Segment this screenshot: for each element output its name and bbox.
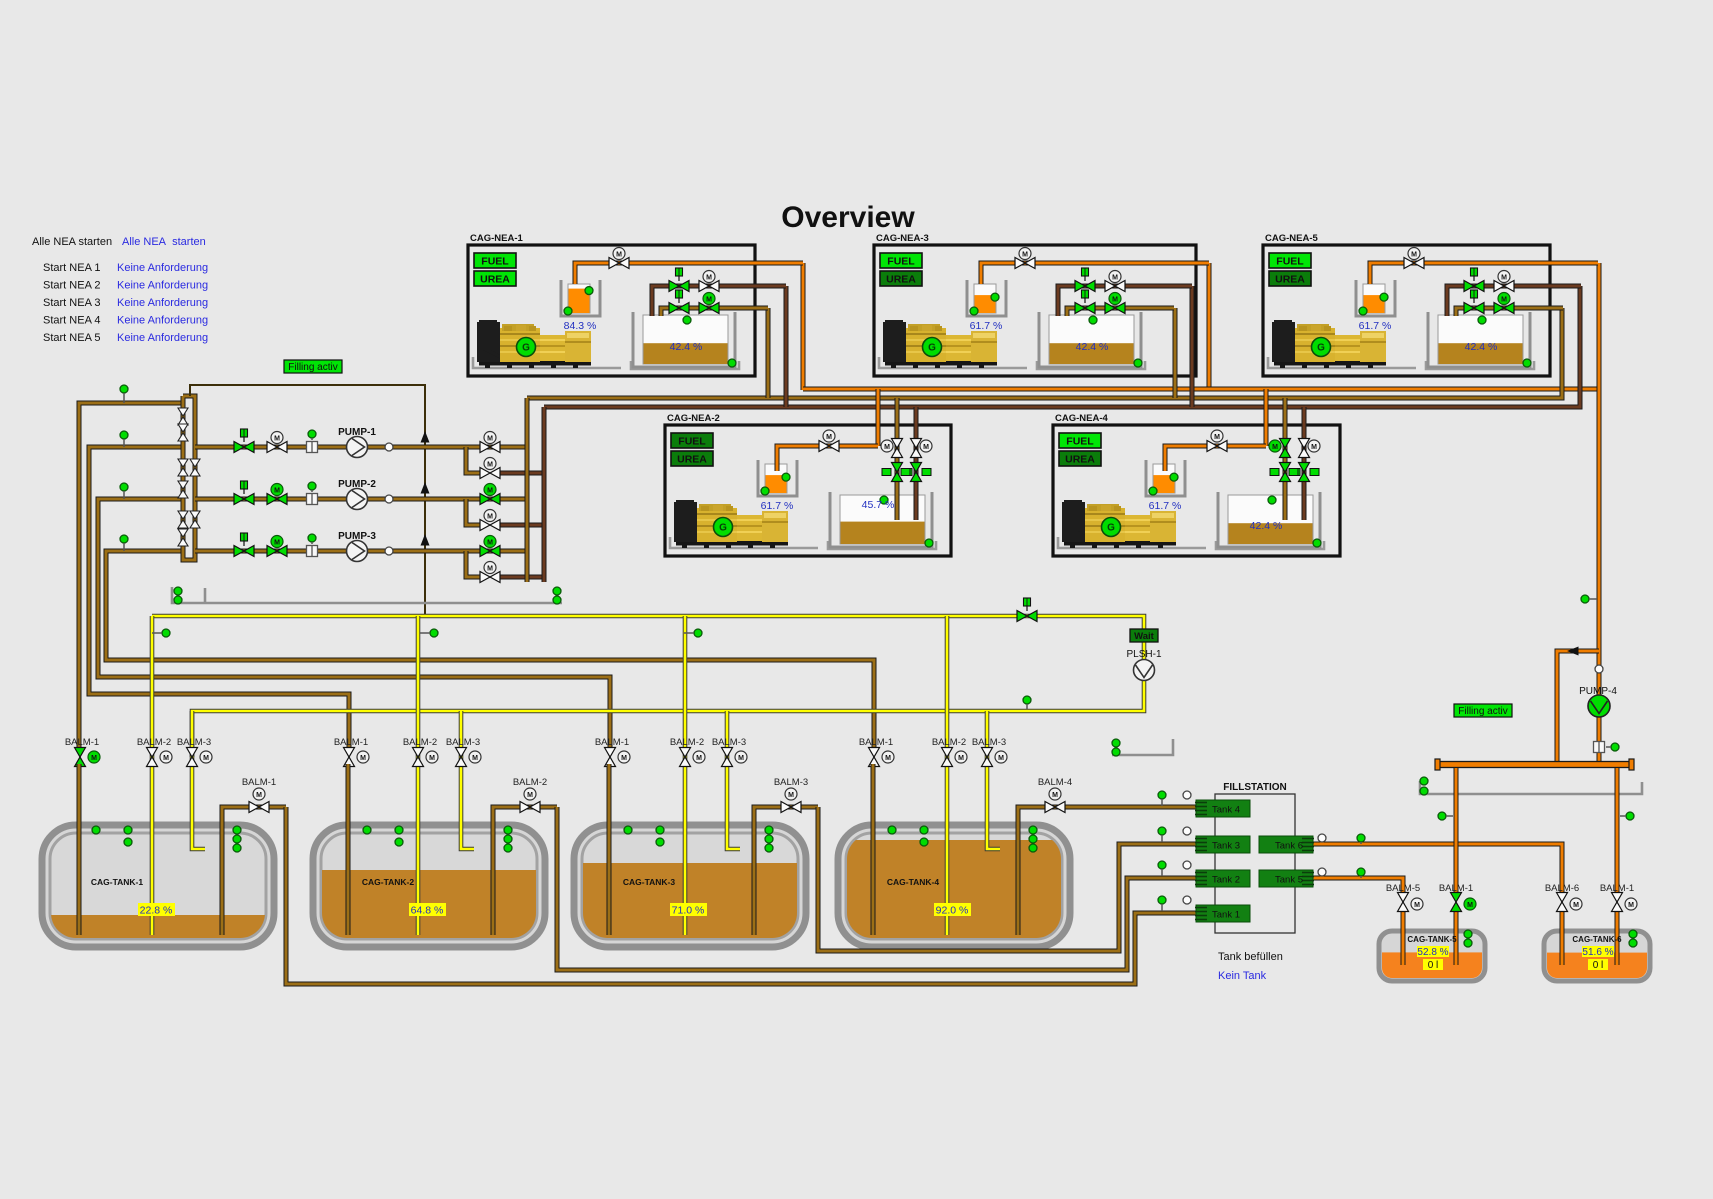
svg-text:CAG-TANK-1: CAG-TANK-1 [91, 877, 144, 887]
svg-text:42.4 %: 42.4 % [670, 341, 703, 353]
valve BALM-1 [869, 748, 880, 767]
valve BALM-3 [187, 748, 198, 767]
fuel day tank CAG-NEA-4 [1218, 492, 1320, 547]
svg-text:64.8 %: 64.8 % [411, 905, 444, 917]
button Tank 6 [1259, 836, 1314, 853]
M circle PUMP-1 [271, 432, 283, 444]
urea level sensor bottom CAG-NEA-3 [970, 307, 978, 315]
fuel supply main [544, 286, 1580, 407]
M circle branch PUMP-3 [484, 562, 496, 574]
branch valve PUMP-2 [480, 520, 500, 531]
M circle BALM-3 [735, 751, 747, 763]
M circle outlet BALM-4 [1049, 788, 1061, 800]
floor bracket fill area [1420, 781, 1642, 794]
fuel hand valve lower CAG-NEA-1 [669, 303, 689, 314]
svg-text:61.7 %: 61.7 % [761, 500, 794, 512]
valve BALM-1 small tank [1451, 893, 1462, 912]
M circle upper valve CAG-NEA-1 [703, 271, 715, 283]
tank top indicator [395, 826, 403, 834]
outlet line BALM-2 [493, 807, 557, 935]
status UREA CAG-NEA-5 [1269, 271, 1311, 286]
fuel tank sensor CAG-NEA-2 [880, 496, 888, 504]
M circle BALM-3 [469, 751, 481, 763]
room indicator [174, 587, 182, 595]
room indicator [1112, 748, 1120, 756]
overflow valve [1017, 611, 1037, 622]
M circle outlet BALM-1 [253, 788, 265, 800]
svg-text:FUEL: FUEL [887, 256, 915, 268]
svg-text:92.0 %: 92.0 % [936, 905, 969, 917]
M circle upper valve CAG-NEA-3 [1109, 271, 1121, 283]
tank outlet indicator [1029, 844, 1037, 852]
overflow indicator [162, 629, 170, 637]
room indicator [553, 587, 561, 595]
fuel line column B CAG-NEA-2 [914, 427, 919, 520]
vent line tank3 BALM-3 [727, 711, 740, 849]
M circle BALM-2 [955, 751, 967, 763]
pump PUMP-4 [1588, 695, 1610, 717]
vent line tank1 BALM-3 [192, 711, 205, 849]
M circle urea valve CAG-NEA-4 [1211, 430, 1223, 442]
valve BALM-2 [942, 748, 953, 767]
fuel tank sensor low CAG-NEA-4 [1313, 539, 1321, 547]
svg-text:0 l: 0 l [1593, 960, 1604, 971]
storage tank CAG-TANK-5 [1379, 931, 1485, 981]
filter PUMP-3 [307, 546, 318, 557]
tank top indicator [888, 826, 896, 834]
svg-text:PUMP-3: PUMP-3 [338, 531, 376, 542]
svg-text:BALM-2: BALM-2 [932, 737, 966, 748]
fuel hand valve upper CAG-NEA-3 [1075, 281, 1095, 292]
urea level sensor bottom CAG-NEA-4 [1149, 487, 1157, 495]
suction line tank1 [79, 403, 183, 750]
frame CAG-NEA-1 [468, 245, 755, 376]
M circle BALM-6 small tank [1570, 898, 1582, 910]
fill pipe tank6 right [1615, 908, 1620, 965]
branch valve PUMP-3 [480, 572, 500, 583]
transfer line BALM-4 to fillstation [1082, 805, 1196, 810]
skid floor fuel tank CAG-NEA-2 [828, 541, 936, 549]
fill drop tank6 BALM-1 [1615, 768, 1620, 895]
status Filling activ 1 [284, 360, 342, 373]
urea main header [803, 387, 1599, 392]
svg-text:CAG-NEA-1: CAG-NEA-1 [470, 233, 523, 244]
level display CAG-TANK-2 [409, 903, 446, 917]
floor bracket pump room [172, 587, 562, 603]
urea supply line CAG-NEA-2 [777, 446, 878, 471]
valve BALM-6 small tank [1557, 893, 1568, 912]
room indicator [1112, 739, 1120, 747]
fill indicator Tank 5 [1357, 868, 1365, 876]
svg-text:FUEL: FUEL [1066, 436, 1094, 448]
room indicator [174, 596, 182, 604]
hand valve column B CAG-NEA-4 [1289, 463, 1319, 482]
status UREA CAG-NEA-1 [474, 271, 516, 286]
tank top indicator [395, 838, 403, 846]
status FUEL CAG-NEA-2 [671, 433, 713, 448]
svg-text:FUEL: FUEL [1276, 256, 1304, 268]
pump discharge riser [525, 398, 530, 582]
svg-text:Alle NEA starten: Alle NEA starten [32, 236, 112, 248]
valve BALM-3 [982, 748, 993, 767]
svg-text:Keine Anforderung: Keine Anforderung [117, 262, 208, 274]
motor valve column B CAG-NEA-4 [1299, 439, 1310, 458]
svg-text:FILLSTATION: FILLSTATION [1223, 782, 1287, 793]
level display CAG-TANK-6 [1582, 946, 1614, 958]
urea day tank CAG-NEA-4 [1146, 460, 1185, 496]
skid floor fuel tank CAG-NEA-1 [631, 361, 739, 369]
line indicator Tank 1 [1158, 896, 1166, 904]
generator unit CAG-NEA-5 [1263, 233, 1550, 376]
hand lever [241, 429, 248, 442]
tank6 indicator [1629, 930, 1637, 938]
M circle PUMP-3 [271, 536, 283, 548]
hand valve column A CAG-NEA-2 [882, 463, 912, 482]
fuel line column A CAG-NEA-2 [895, 427, 900, 520]
fuel line column B CAG-NEA-4 [1302, 427, 1307, 520]
fuel return line CAG-NEA-5 [1456, 308, 1563, 316]
fuel hand valve lower CAG-NEA-3 [1075, 303, 1095, 314]
overflow drop tank4 BALM-2 [945, 616, 950, 935]
outlet valve BALM-4 [1045, 802, 1065, 813]
svg-text:UREA: UREA [480, 274, 510, 286]
diesel engine CAG-NEA-4 [1062, 500, 1176, 548]
fuel return drop NEA-3 [1173, 308, 1178, 398]
M circle column A CAG-NEA-2 [881, 440, 893, 452]
branch valve PUMP-1 [480, 468, 500, 479]
suction line tank2 [89, 447, 349, 750]
tank outlet indicator [504, 844, 512, 852]
flow arrow PUMP-4 [1567, 647, 1579, 656]
fill drop tank5 BALM-1 [1454, 768, 1459, 895]
svg-text:Start NEA 2: Start NEA 2 [43, 280, 100, 292]
urea drop NEA-4 [1264, 389, 1269, 446]
line sensor Tank 1 [1183, 896, 1191, 904]
fuel tank sensor CAG-NEA-1 [683, 316, 691, 324]
M circle BALM-1 [357, 751, 369, 763]
fuel motor valve lower CAG-NEA-5 [1494, 303, 1514, 314]
bypass branch PUMP-2 [466, 499, 480, 525]
M circle PUMP-2 [271, 484, 283, 496]
outlet valve BALM-1 [249, 802, 269, 813]
svg-text:61.7 %: 61.7 % [970, 320, 1003, 332]
fuel day tank CAG-NEA-2 [830, 492, 932, 547]
drop indicator [1438, 812, 1446, 820]
tank outlet indicator [233, 835, 241, 843]
line sensor Tank 3 [1183, 827, 1191, 835]
fuel return drop NEA-1 [766, 308, 771, 398]
fuel line column A CAG-NEA-4 [1283, 427, 1288, 520]
overflow drop tank1 BALM-2 [150, 616, 155, 935]
motor valve column A CAG-NEA-2 [892, 439, 903, 458]
suction line tank3 [98, 499, 610, 750]
valve BALM-1 small tank [1612, 893, 1623, 912]
bypass branch PUMP-1 [466, 447, 480, 473]
pump PLSH-1 [1134, 660, 1155, 681]
suction pipe in tank [77, 764, 82, 935]
M circle column B CAG-NEA-2 [920, 440, 932, 452]
button Tank 2 [1195, 870, 1250, 887]
pump bypass line [190, 385, 425, 616]
room indicator [1420, 787, 1428, 795]
urea valve CAG-NEA-4 [1207, 441, 1227, 452]
M circle BALM-2 [160, 751, 172, 763]
filter indicator PUMP-2 [308, 482, 316, 490]
flow arrow [421, 431, 430, 443]
hand valve column A CAG-NEA-4 [1270, 463, 1300, 482]
skid floor engine CAG-NEA-2 [670, 537, 818, 548]
fuel motor valve lower CAG-NEA-1 [699, 303, 719, 314]
svg-text:BALM-1: BALM-1 [242, 777, 276, 788]
skid floor engine CAG-NEA-3 [879, 357, 1027, 368]
svg-text:CAG-TANK-5: CAG-TANK-5 [1407, 935, 1457, 944]
urea level sensor bottom CAG-NEA-5 [1359, 307, 1367, 315]
svg-text:BALM-2: BALM-2 [670, 737, 704, 748]
tank outlet indicator [1029, 835, 1037, 843]
svg-text:UREA: UREA [886, 274, 916, 286]
check valves manifold left [178, 408, 188, 546]
skid floor engine CAG-NEA-5 [1268, 357, 1416, 368]
fuel tank sensor CAG-NEA-5 [1478, 316, 1486, 324]
fuel tank sensor low CAG-NEA-1 [728, 359, 736, 367]
check valves manifold right [190, 459, 200, 528]
M circle upper valve CAG-NEA-5 [1498, 271, 1510, 283]
fuel supply line CAG-NEA-1 [652, 286, 786, 316]
svg-text:Tank 2: Tank 2 [1212, 875, 1240, 886]
tank top indicator [624, 826, 632, 834]
vent line tank2 BALM-3 [461, 711, 474, 849]
status Filling activ 2 [1454, 704, 1512, 717]
button Tank 3 [1195, 836, 1250, 853]
filter indicator PUMP-1 [308, 430, 316, 438]
svg-text:PLSH-1: PLSH-1 [1126, 649, 1161, 660]
transfer line BALM-2 to fillstation [557, 807, 1196, 970]
motor valve column B CAG-NEA-2 [911, 439, 922, 458]
indicator tank4 line [120, 535, 128, 543]
fuel hand valve upper CAG-NEA-1 [669, 281, 689, 292]
tank outlet indicator [765, 826, 773, 834]
urea level sensor top CAG-NEA-5 [1380, 293, 1388, 301]
fill line Tank 5 [1313, 878, 1403, 895]
svg-text:Keine Anforderung: Keine Anforderung [117, 280, 208, 292]
svg-text:51.6 %: 51.6 % [1582, 947, 1613, 958]
hand lever [1082, 268, 1089, 281]
level display CAG-TANK-5 [1417, 946, 1449, 958]
svg-text:CAG-TANK-2: CAG-TANK-2 [362, 877, 415, 887]
svg-text:61.7 %: 61.7 % [1149, 500, 1182, 512]
svg-text:BALM-2: BALM-2 [137, 737, 171, 748]
svg-text:PUMP-1: PUMP-1 [338, 427, 376, 438]
svg-text:Wait: Wait [1134, 631, 1155, 642]
outlet valve BALM-2 [520, 802, 540, 813]
flow arrow [421, 534, 430, 546]
urea level sensor top CAG-NEA-4 [1170, 473, 1178, 481]
diesel engine CAG-NEA-1 [477, 320, 591, 368]
M circle outlet BALM-3 [785, 788, 797, 800]
hand lever [676, 268, 683, 281]
vent line tank4 BALM-3 [987, 711, 1000, 849]
svg-text:Tank 4: Tank 4 [1212, 805, 1240, 816]
M circle BALM-1 small tank [1625, 898, 1637, 910]
urea valve CAG-NEA-3 [1015, 258, 1035, 269]
pressure sensor PUMP-2 [385, 495, 393, 503]
indicator tank3 line [120, 483, 128, 491]
svg-text:Start NEA 3: Start NEA 3 [43, 297, 100, 309]
overflow drop tank3 BALM-2 [683, 616, 688, 935]
tank top indicator [920, 838, 928, 846]
pump PUMP-2 [347, 489, 368, 510]
fuel day tank CAG-NEA-5 [1428, 312, 1530, 367]
svg-text:FUEL: FUEL [678, 436, 706, 448]
svg-text:52.8 %: 52.8 % [1417, 947, 1448, 958]
overflow main loop [152, 616, 1144, 757]
pump suction manifold [183, 396, 195, 560]
urea trunk right [1597, 263, 1602, 762]
transfer line BALM-3 to fillstation [818, 807, 1196, 951]
motor indicator urea valve CAG-NEA-5 [1408, 248, 1420, 260]
overflow indicator [430, 629, 438, 637]
status FUEL CAG-NEA-3 [880, 253, 922, 268]
trunk indicator [1581, 595, 1589, 603]
valve BALM-5 small tank [1398, 893, 1409, 912]
svg-text:45.7 %: 45.7 % [862, 499, 895, 511]
status UREA CAG-NEA-3 [880, 271, 922, 286]
fuel motor valve upper CAG-NEA-5 [1494, 281, 1514, 292]
discharge valve PUMP-1 [480, 442, 500, 453]
M circle BALM-1 [88, 751, 100, 763]
outlet line BALM-3 [754, 807, 818, 935]
diesel engine CAG-NEA-2 [674, 500, 788, 548]
urea drop NEA-2 [876, 389, 881, 446]
fuel feed column B NEA-4 [1302, 407, 1307, 440]
overflow indicator [694, 629, 702, 637]
fuel supply line CAG-NEA-3 [1058, 286, 1192, 316]
svg-text:Overview: Overview [781, 201, 915, 234]
generator unit CAG-NEA-3 [874, 233, 1196, 376]
status Wait PLSH-1 [1130, 629, 1158, 642]
button Tank 1 [1195, 905, 1250, 922]
outlet valve BALM-3 [781, 802, 801, 813]
svg-text:42.4 %: 42.4 % [1465, 341, 1498, 353]
diesel engine CAG-NEA-3 [883, 320, 997, 368]
tank top indicator [124, 838, 132, 846]
urea level sensor top CAG-NEA-3 [991, 293, 999, 301]
M circle BALM-3 [995, 751, 1007, 763]
svg-text:Keine Anforderung: Keine Anforderung [117, 297, 208, 309]
motor valve column A CAG-NEA-4 [1280, 439, 1291, 458]
svg-text:BALM-1: BALM-1 [859, 737, 893, 748]
urea day tank CAG-NEA-3 [967, 280, 1006, 316]
urea day tank CAG-NEA-1 [561, 280, 600, 316]
pump PUMP-1 [347, 437, 368, 458]
generator unit CAG-NEA-2 [665, 413, 951, 556]
discharge valve PUMP-3 [480, 546, 500, 557]
valve BALM-3 [456, 748, 467, 767]
M circle lower valve CAG-NEA-1 [703, 293, 715, 305]
fuel feed column A NEA-4 [1283, 398, 1288, 440]
button Tank 4 [1195, 800, 1250, 817]
fuel motor valve upper CAG-NEA-3 [1105, 281, 1125, 292]
tank top indicator [656, 826, 664, 834]
hand lever [1082, 290, 1089, 303]
fill manifold [1435, 759, 1634, 770]
pressure sensor PUMP-4 [1595, 665, 1603, 673]
level display CAG-TANK-3 [670, 903, 707, 917]
indicator tank2 line [120, 431, 128, 439]
fuel return main [527, 308, 1562, 398]
urea drop NEA-1 [801, 263, 806, 390]
svg-text:UREA: UREA [677, 454, 707, 466]
svg-text:CAG-NEA-3: CAG-NEA-3 [876, 233, 929, 244]
status UREA CAG-NEA-4 [1059, 451, 1101, 466]
M circle BALM-2 [426, 751, 438, 763]
svg-text:BALM-3: BALM-3 [712, 737, 746, 748]
svg-text:Tank 6: Tank 6 [1275, 841, 1303, 852]
bypass branch stub PUMP-3 [498, 575, 544, 580]
frame CAG-NEA-2 [665, 425, 951, 556]
fuel supply line CAG-NEA-5 [1447, 286, 1581, 316]
frame CAG-NEA-4 [1053, 425, 1340, 556]
M circle branch PUMP-2 [484, 510, 496, 522]
skid floor engine CAG-NEA-4 [1058, 537, 1206, 548]
urea level sensor top CAG-NEA-2 [782, 473, 790, 481]
status FUEL CAG-NEA-1 [474, 253, 516, 268]
fill sensor Tank 5 [1318, 868, 1326, 876]
urea day tank CAG-NEA-5 [1356, 280, 1395, 316]
discharge valve PUMP-2 [480, 494, 500, 505]
fuel day tank CAG-NEA-1 [633, 312, 735, 367]
M circle urea valve CAG-NEA-2 [823, 430, 835, 442]
svg-text:0 l: 0 l [1428, 960, 1439, 971]
fill indicator Tank 6 [1357, 834, 1365, 842]
tank5 indicator [1464, 939, 1472, 947]
diesel engine CAG-NEA-5 [1272, 320, 1386, 368]
pump line PUMP-1 [195, 445, 527, 450]
outlet line BALM-1 [222, 807, 286, 935]
fuel motor valve upper CAG-NEA-1 [699, 281, 719, 292]
motor indicator urea valve CAG-NEA-3 [1019, 248, 1031, 260]
M circle discharge PUMP-2 [484, 484, 496, 496]
fuel supply drop NEA-1 [784, 286, 789, 407]
svg-text:Keine Anforderung: Keine Anforderung [117, 332, 208, 344]
urea valve CAG-NEA-2 [819, 441, 839, 452]
room indicator [1420, 777, 1428, 785]
hand lever [1024, 598, 1031, 611]
fuel feed column B NEA-2 [914, 407, 919, 440]
urea drop NEA-3 [1207, 263, 1212, 390]
svg-text:71.0 %: 71.0 % [672, 905, 705, 917]
fuel hand valve lower CAG-NEA-5 [1464, 303, 1484, 314]
svg-text:Alle NEA starten: Alle NEA starten [122, 236, 206, 248]
hand valve PUMP-3 [234, 546, 254, 557]
pressure sensor PUMP-1 [385, 443, 393, 451]
level display CAG-TANK-4 [934, 903, 971, 917]
tank5 indicator [1464, 930, 1472, 938]
motor valve PUMP-3 [267, 546, 287, 557]
storage tank CAG-TANK-3 [574, 825, 806, 947]
svg-text:UREA: UREA [1275, 274, 1305, 286]
svg-text:BALM-3: BALM-3 [774, 777, 808, 788]
pump PUMP-3 [347, 541, 368, 562]
hand lever [241, 481, 248, 494]
suction pipe in tank [871, 764, 876, 935]
hand valve column B CAG-NEA-2 [901, 463, 931, 482]
urea supply line CAG-NEA-1 [575, 263, 803, 284]
svg-text:UREA: UREA [1065, 454, 1095, 466]
hand lever [676, 290, 683, 303]
fuel day tank CAG-NEA-3 [1039, 312, 1141, 367]
skid floor fuel tank CAG-NEA-5 [1426, 361, 1534, 369]
